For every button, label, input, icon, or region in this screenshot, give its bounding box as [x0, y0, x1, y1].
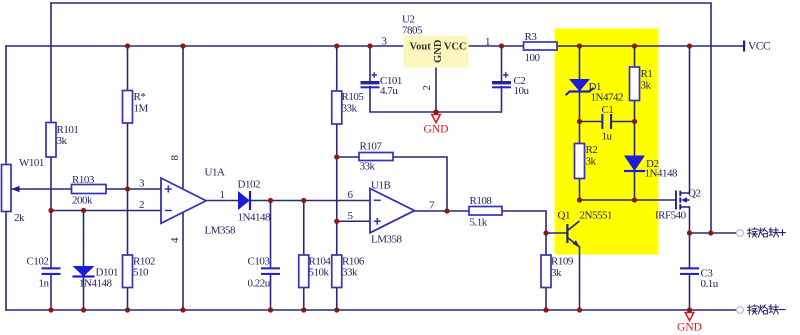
label C101 value 4.7u [380, 75, 402, 97]
junction D101 pin2 node [81, 208, 86, 213]
junction C103 ground rail [268, 307, 273, 312]
svg-text:0.1u: 0.1u [701, 278, 719, 290]
junction 7805 pin2 GND node [433, 109, 438, 114]
junction R102 ground rail [125, 307, 130, 312]
capacitor C1 [601, 114, 612, 129]
label C103 value 0.22u [248, 256, 271, 290]
svg-text:1N4742: 1N4742 [591, 92, 623, 104]
label U1B LM358 [371, 180, 403, 246]
junction Q1 emitter ground rail [577, 307, 582, 312]
junction C2 at pin1 net [499, 43, 504, 48]
resistor R107 [359, 153, 393, 161]
label R103 value 200k [72, 174, 95, 207]
wire node to R104 [303, 201, 305, 256]
wire D102 cathode to U1B pin6 [251, 200, 371, 202]
svg-text:Vout: Vout [410, 42, 432, 53]
svg-text:2k: 2k [14, 212, 25, 224]
label R107 value 33k [360, 141, 383, 173]
wire inverting input net to D101 [83, 211, 85, 267]
wire 7805 pin2 to GND [435, 67, 437, 112]
junction top rail iron+ node [708, 230, 713, 235]
capacitor C3 [680, 267, 699, 275]
wire 7805 pin1 to R3 [469, 45, 524, 47]
svg-text:0.22u: 0.22u [248, 278, 271, 290]
junction D101 ground rail [81, 307, 86, 312]
wire Q2 drain to VCC node and source to C3 [689, 46, 691, 193]
svg-text:1u: 1u [602, 131, 613, 143]
potentiometer W101 body [2, 165, 20, 212]
svg-text:5.1k: 5.1k [470, 216, 488, 228]
svg-text:VCC: VCC [748, 41, 771, 53]
junction R1 at VCC net [632, 43, 637, 48]
svg-text:1: 1 [485, 36, 490, 48]
junction U1B pin5 node [334, 219, 339, 224]
svg-text:1N4148: 1N4148 [238, 211, 271, 223]
svg-text:7805: 7805 [402, 25, 423, 37]
junction R2 collector node [577, 197, 582, 202]
wire C101 bottom to GND node [370, 87, 502, 113]
wire VCC node down to D1 [579, 46, 581, 79]
wire D2 cathode to gate node [634, 171, 636, 200]
label C1 value 1u [602, 104, 614, 143]
junction R* at VCC5 rail [125, 43, 130, 48]
wire VCC node down to R1 [634, 46, 636, 67]
junction R105 R107 node [334, 154, 339, 159]
capacitor C101 polarized [361, 72, 380, 88]
svg-text:C103: C103 [248, 256, 271, 268]
junction feedback output node [444, 208, 449, 213]
resistor R103 [72, 185, 107, 194]
resistor R102 [123, 255, 133, 288]
junction R1 C1 node [632, 119, 637, 124]
junction D1 at VCC net [577, 43, 582, 48]
wire R107 to U1B output node [393, 157, 447, 211]
junction C3 ground rail [687, 307, 692, 312]
junction R101 pin2 node [48, 208, 53, 213]
wire C1 right lead [612, 121, 635, 123]
junction R109 ground rail [543, 307, 548, 312]
svg-text:33k: 33k [342, 103, 358, 115]
label W101 value 2k [14, 157, 44, 224]
wire node to U1B pin5 [337, 220, 370, 222]
junction C103 node [268, 198, 273, 203]
capacitor C103 [261, 267, 280, 275]
svg-text:2: 2 [421, 86, 433, 91]
svg-text:100: 100 [525, 52, 541, 64]
svg-text:3k: 3k [586, 156, 597, 168]
yellow highlight region [555, 29, 659, 255]
label D101 value 1N4148 [79, 267, 118, 290]
svg-text:W101: W101 [19, 157, 44, 169]
wire Q1 emitter to ground rail [579, 247, 581, 310]
label U1A LM358 [205, 166, 237, 236]
wire left rail down to W101 [5, 46, 7, 165]
ground symbol bottom rail [677, 313, 702, 334]
label D102 value 1N4148 [238, 179, 271, 224]
svg-text:GND: GND [424, 124, 449, 136]
svg-text:R107: R107 [360, 141, 383, 153]
junction R103 R102 pin3 node [125, 186, 130, 191]
resistor R104 [299, 255, 309, 288]
svg-text:C102: C102 [27, 256, 49, 268]
wire R106 bottom to ground rail [336, 288, 338, 311]
junction R105 at VCC5 rail [334, 43, 339, 48]
VCC power terminal [743, 41, 745, 52]
svg-text:Q2: Q2 [688, 187, 700, 199]
label R104 value 510k [309, 256, 332, 279]
wire D1 cathode to C1 node [579, 92, 581, 144]
label R1 value 3k [641, 68, 653, 92]
resistor R109 [541, 255, 551, 288]
junction D1 C1 node [577, 119, 582, 124]
label U2 7805 [402, 13, 423, 36]
transistor Q1 2N5551 [566, 221, 580, 248]
label D1 value 1N4742 [589, 81, 623, 104]
svg-text:R1: R1 [641, 68, 653, 80]
wire R102 bottom to ground rail [127, 288, 129, 311]
svg-text:1N4148: 1N4148 [645, 168, 678, 180]
label R3 value 100 [525, 31, 541, 64]
regulator U2 7805 body [404, 36, 469, 68]
junction D2 gate node [632, 197, 637, 202]
capacitor C102 [42, 267, 61, 275]
wire C1 node down to D2 [634, 122, 636, 156]
svg-text:U1A: U1A [205, 166, 225, 178]
svg-text:R3: R3 [525, 31, 538, 43]
wire W101 wiper to R103 [11, 188, 72, 190]
label R* value 1M [134, 91, 149, 115]
label iron minus terminal (jie lao tie -) [748, 305, 786, 315]
capacitor C2 polarized [492, 72, 511, 88]
svg-text:R108: R108 [470, 195, 493, 207]
junction U1A pin8 at VCC5 rail [180, 43, 185, 48]
wire VCC5 rail (7805 Vout to left) [6, 45, 403, 47]
wire Q2 source down to C3 [689, 207, 691, 268]
label C102 value 1n [27, 256, 50, 290]
wire C102 bottom to ground rail [50, 275, 52, 311]
wire U1A pin8 to VCC5 rail [182, 46, 184, 189]
diode D102 [238, 191, 251, 210]
label R109 value 3k [551, 256, 574, 280]
svg-text:VCC: VCC [444, 42, 467, 53]
svg-text:R*: R* [134, 91, 146, 103]
svg-text:3k: 3k [57, 135, 68, 147]
label R106 value 33k [342, 256, 365, 279]
wire R* bottom through node to R102 [127, 123, 129, 255]
svg-text:33k: 33k [342, 267, 358, 279]
wire R1 bottom to C1 node [634, 101, 636, 122]
svg-text:10u: 10u [514, 85, 530, 97]
label R105 value 33k [342, 91, 365, 115]
wire R3 to VCC terminal [557, 45, 744, 47]
svg-text:1N4148: 1N4148 [79, 278, 112, 290]
junction R104 node [301, 198, 306, 203]
iron+ output terminal circle [737, 230, 744, 237]
junction C102 ground rail [48, 307, 53, 312]
svg-text:R105: R105 [342, 91, 365, 103]
label Q2 IRF540 [655, 187, 700, 221]
wire R105 bottom through nodes to R106 [336, 124, 338, 255]
wire C1 left lead [580, 121, 602, 123]
svg-text:200k: 200k [72, 195, 93, 207]
label D2 value 1N4148 [645, 158, 678, 180]
wire C103 bottom to ground rail [270, 275, 272, 311]
svg-text:1n: 1n [39, 278, 50, 290]
svg-text:LM358: LM358 [205, 224, 237, 236]
junction R106 ground rail [334, 307, 339, 312]
svg-text:D102: D102 [238, 179, 260, 191]
resistor R* [123, 91, 133, 124]
zener diode D1 [566, 79, 594, 95]
junction C101 at VCC5 rail [367, 43, 372, 48]
svg-text:1: 1 [220, 189, 225, 201]
wire node to C103 [270, 201, 272, 269]
wire U1A pin4 to ground rail [182, 212, 184, 311]
label R2 value 3k [586, 144, 598, 168]
junction R104 ground rail [301, 307, 306, 312]
svg-text:GND: GND [677, 322, 702, 334]
svg-text:2: 2 [139, 199, 144, 211]
resistor R106 [332, 255, 342, 288]
wire R2 bottom to Q1 collector node [579, 179, 581, 201]
svg-text:R2: R2 [586, 144, 598, 156]
resistor R2 [575, 144, 585, 179]
svg-text:GND: GND [433, 39, 444, 63]
wire ground bottom rail [6, 309, 737, 311]
junction Q1 base R109 node [543, 230, 548, 235]
svg-text:2N5551: 2N5551 [580, 210, 612, 222]
svg-text:LM358: LM358 [371, 233, 403, 245]
wire U1A output pin1 to D102 [206, 200, 238, 202]
svg-text:1M: 1M [134, 103, 149, 115]
label R108 value 5.1k [470, 195, 493, 228]
svg-text:510: 510 [133, 267, 149, 279]
wire W101 bottom to ground rail [5, 212, 7, 311]
wire U1B pin7 output to R108 [415, 210, 470, 212]
svg-text:Q1: Q1 [558, 210, 570, 222]
junction Q2 drain at VCC net [687, 43, 692, 48]
iron- output terminal circle [737, 307, 744, 314]
svg-text:3k: 3k [551, 267, 562, 279]
resistor R101 [46, 123, 56, 158]
diode D2 [624, 156, 645, 173]
resistor R105 [332, 91, 342, 124]
ground symbol under 7805 [424, 115, 449, 136]
wire R108 to Q1 base node [502, 211, 546, 233]
svg-text:U2: U2 [402, 13, 414, 25]
svg-text:C1: C1 [602, 104, 614, 116]
wire top rail to iron+ terminal [51, 3, 711, 233]
svg-text:510k: 510k [309, 267, 330, 279]
junction Q2 source node [687, 230, 692, 235]
wire R109 bottom to ground rail [545, 288, 547, 311]
label C2 value 10u [514, 75, 530, 97]
wire C3 bottom to ground rail [689, 275, 691, 311]
wire VCC5 rail down to C101 [369, 46, 371, 82]
wire U1A pin2 input [51, 210, 161, 212]
label R102 value 510 [133, 256, 155, 279]
wire VCC5 rail down to R* [127, 46, 129, 91]
junction U1A pin4 ground rail [180, 307, 185, 312]
label C3 value 0.1u [701, 267, 719, 290]
wire R101 bottom to C102 top [50, 157, 52, 268]
svg-text:4.7u: 4.7u [380, 85, 398, 97]
diode D101 [73, 266, 95, 278]
wire C2 top to pin1 node [501, 46, 503, 82]
svg-text:R103: R103 [72, 174, 95, 186]
wire R104 bottom to ground rail [303, 288, 305, 311]
svg-text:IRF540: IRF540 [655, 210, 687, 222]
resistor R3 [524, 42, 558, 50]
transistor Q2 IRF540 mosfet [675, 191, 690, 210]
svg-text:R109: R109 [551, 256, 574, 268]
wire Q2 source to iron+ terminal [690, 232, 737, 234]
op-amp U1A [161, 178, 206, 223]
wire top rail down to R101 [50, 3, 52, 123]
resistor R108 [469, 207, 502, 216]
wire Q1 base node to base [546, 232, 567, 234]
label iron plus terminal (jie lao tie +) [748, 228, 786, 238]
wire node to R109 [545, 233, 547, 255]
label Q1 2N5551 [558, 210, 612, 222]
svg-text:33k: 33k [360, 160, 376, 172]
resistor R1 [630, 67, 640, 101]
label R101 value 3k [57, 124, 79, 147]
wire node to R107 [337, 156, 359, 158]
svg-text:3k: 3k [641, 80, 652, 92]
svg-text:U1B: U1B [371, 180, 390, 192]
wire D101 cathode to ground rail [83, 277, 85, 311]
op-amp U1B [370, 189, 415, 233]
wire VCC5 rail down to R105 [336, 46, 338, 91]
wire Q1 collector node to Q2 gate [580, 199, 677, 201]
wire R103 to U1A pin3 [106, 188, 161, 190]
